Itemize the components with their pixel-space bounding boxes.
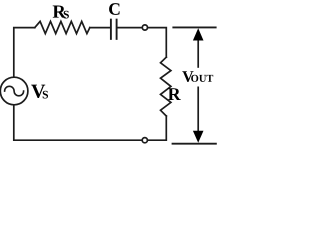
Vout dimension bottom bar — [172, 143, 217, 145]
source Vs sine wave — [5, 86, 24, 95]
wire top-left from source to resistor Rs — [14, 28, 35, 78]
resistor R — [161, 57, 171, 116]
capacitor C left plate — [110, 20, 112, 39]
wire terminal to top-right corner — [148, 28, 166, 58]
wire Rs to capacitor C — [90, 27, 110, 29]
wire bottom from terminal to source — [14, 105, 142, 140]
node top output terminal — [142, 25, 147, 30]
svg-text:S: S — [42, 89, 48, 101]
Vout arrowhead down — [193, 131, 204, 143]
node bottom output terminal — [142, 138, 147, 143]
wire R to bottom-right corner — [148, 116, 166, 140]
wire capacitor to top output terminal — [118, 27, 142, 29]
svg-text:OUT: OUT — [191, 74, 214, 85]
Vout arrow line upper segment — [197, 40, 199, 68]
capacitor C right plate — [116, 20, 118, 39]
resistor Rs — [35, 21, 90, 33]
Vout dimension top bar — [172, 26, 216, 28]
svg-text:R: R — [168, 84, 182, 104]
Vout arrowhead up — [193, 28, 204, 40]
Vout arrow line lower segment — [197, 87, 199, 132]
svg-text:S: S — [63, 9, 69, 21]
svg-text:C: C — [108, 0, 121, 19]
source Vs circle — [0, 77, 28, 105]
